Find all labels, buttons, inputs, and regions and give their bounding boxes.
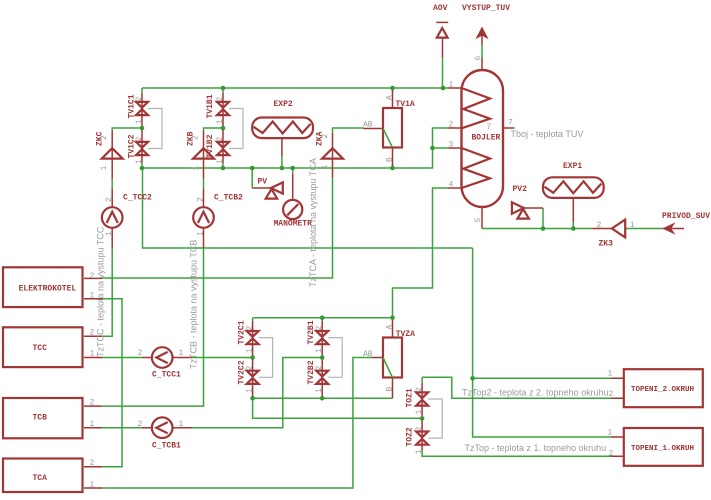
svg-text:B: B <box>386 387 395 392</box>
svg-text:2: 2 <box>100 135 109 140</box>
svg-text:1: 1 <box>449 80 454 89</box>
svg-text:5: 5 <box>474 218 483 223</box>
svg-text:MANOMETR: MANOMETR <box>274 220 313 229</box>
svg-text:2: 2 <box>90 329 95 338</box>
svg-text:EXP2: EXP2 <box>274 100 293 109</box>
svg-text:PV2: PV2 <box>513 185 528 194</box>
svg-text:C_TCC2: C_TCC2 <box>123 194 152 203</box>
svg-text:TCC: TCC <box>33 344 48 353</box>
svg-text:3: 3 <box>449 140 454 149</box>
svg-text:1: 1 <box>415 449 424 454</box>
svg-text:1: 1 <box>192 166 201 171</box>
svg-text:B: B <box>386 157 395 162</box>
svg-text:TzTop2 - teplota z 2. topneho: TzTop2 - teplota z 2. topneho okruhu <box>462 388 609 398</box>
svg-text:TzTCC - teplota na vystupu TCC: TzTCC - teplota na vystupu TCC <box>96 226 106 357</box>
svg-text:7: 7 <box>487 123 492 132</box>
svg-text:1: 1 <box>179 420 184 429</box>
svg-text:2: 2 <box>609 390 614 399</box>
svg-text:1: 1 <box>608 369 613 378</box>
svg-text:4: 4 <box>449 180 454 189</box>
svg-text:1: 1 <box>216 119 225 124</box>
svg-text:1: 1 <box>105 231 114 236</box>
svg-text:1: 1 <box>90 292 95 301</box>
svg-text:A: A <box>386 95 395 100</box>
svg-text:TV2C2: TV2C2 <box>238 360 247 384</box>
svg-text:2: 2 <box>597 221 602 230</box>
svg-text:1: 1 <box>608 428 613 437</box>
svg-text:TOPENI_1.OKRUH: TOPENI_1.OKRUH <box>631 445 694 453</box>
svg-text:7: 7 <box>508 119 513 128</box>
svg-text:2: 2 <box>415 427 424 432</box>
svg-text:1: 1 <box>100 166 109 171</box>
svg-text:2: 2 <box>216 97 225 102</box>
svg-text:VYSTUP_TUV: VYSTUP_TUV <box>462 4 510 13</box>
svg-text:1: 1 <box>90 350 95 359</box>
svg-text:2: 2 <box>105 197 114 202</box>
svg-text:TV2B1: TV2B1 <box>307 320 316 344</box>
svg-text:TOPENI_2.OKRUH: TOPENI_2.OKRUH <box>631 386 694 394</box>
svg-text:1: 1 <box>90 480 95 489</box>
svg-text:2: 2 <box>90 459 95 468</box>
svg-text:2: 2 <box>135 137 144 142</box>
svg-text:1: 1 <box>197 231 206 236</box>
svg-text:2: 2 <box>315 366 324 371</box>
svg-text:2: 2 <box>135 97 144 102</box>
svg-text:2: 2 <box>609 449 614 458</box>
svg-text:TCB: TCB <box>33 414 48 423</box>
svg-text:1: 1 <box>315 348 324 353</box>
svg-text:C_TCB2: C_TCB2 <box>214 194 243 203</box>
svg-text:PRIVOD_SUV: PRIVOD_SUV <box>662 212 710 221</box>
svg-text:1: 1 <box>321 165 330 170</box>
svg-text:1: 1 <box>315 388 324 393</box>
svg-text:AB: AB <box>363 121 373 130</box>
svg-text:ELEKTROKOTEL: ELEKTROKOTEL <box>19 285 77 294</box>
svg-text:TOZ1: TOZ1 <box>406 388 415 407</box>
svg-text:TzTCA - teplota na vystupu TCA: TzTCA - teplota na vystupu TCA <box>308 158 318 287</box>
svg-text:TV1B2: TV1B2 <box>206 134 215 158</box>
svg-text:2: 2 <box>138 349 143 358</box>
svg-text:1: 1 <box>246 348 255 353</box>
svg-text:BOJLER: BOJLER <box>472 134 501 143</box>
svg-text:1: 1 <box>630 221 635 230</box>
svg-text:TzTop - teplota z 1. topneho o: TzTop - teplota z 1. topneho okruhu <box>465 443 607 453</box>
svg-text:C_TCC1: C_TCC1 <box>152 371 181 380</box>
svg-text:2: 2 <box>216 137 225 142</box>
svg-text:2: 2 <box>192 135 201 140</box>
svg-text:2: 2 <box>246 326 255 331</box>
svg-text:ZK3: ZK3 <box>599 240 614 249</box>
svg-text:2: 2 <box>246 366 255 371</box>
svg-text:2: 2 <box>321 134 330 139</box>
svg-text:1: 1 <box>135 119 144 124</box>
svg-text:2: 2 <box>315 326 324 331</box>
svg-text:1: 1 <box>246 388 255 393</box>
svg-text:EXP1: EXP1 <box>563 162 582 171</box>
svg-text:1: 1 <box>135 159 144 164</box>
svg-text:C_TCB1: C_TCB1 <box>152 442 181 451</box>
svg-text:2: 2 <box>415 387 424 392</box>
svg-text:AB: AB <box>363 350 373 359</box>
svg-text:TCA: TCA <box>33 474 48 483</box>
svg-text:Tboj - teplota TUV: Tboj - teplota TUV <box>511 129 584 139</box>
svg-text:1: 1 <box>216 159 225 164</box>
svg-text:TV1B1: TV1B1 <box>206 94 215 118</box>
svg-text:2: 2 <box>90 272 95 281</box>
svg-text:2: 2 <box>138 420 143 429</box>
svg-text:TV1A: TV1A <box>396 100 415 109</box>
svg-text:6: 6 <box>474 56 483 61</box>
svg-text:2: 2 <box>449 120 454 129</box>
svg-text:2: 2 <box>90 399 95 408</box>
svg-text:1: 1 <box>179 349 184 358</box>
svg-text:1: 1 <box>90 420 95 429</box>
svg-text:A: A <box>386 325 395 330</box>
svg-text:TV2B2: TV2B2 <box>307 360 316 384</box>
svg-text:TOZ2: TOZ2 <box>406 427 415 446</box>
svg-text:2: 2 <box>197 197 206 202</box>
svg-text:1: 1 <box>415 410 424 415</box>
svg-text:TV2C1: TV2C1 <box>238 320 247 344</box>
svg-text:TzTCB - teplota na vystupu TCB: TzTCB - teplota na vystupu TCB <box>189 240 199 369</box>
svg-text:TVZA: TVZA <box>396 330 415 339</box>
svg-text:PV: PV <box>258 178 268 187</box>
svg-text:AOV: AOV <box>433 4 448 13</box>
